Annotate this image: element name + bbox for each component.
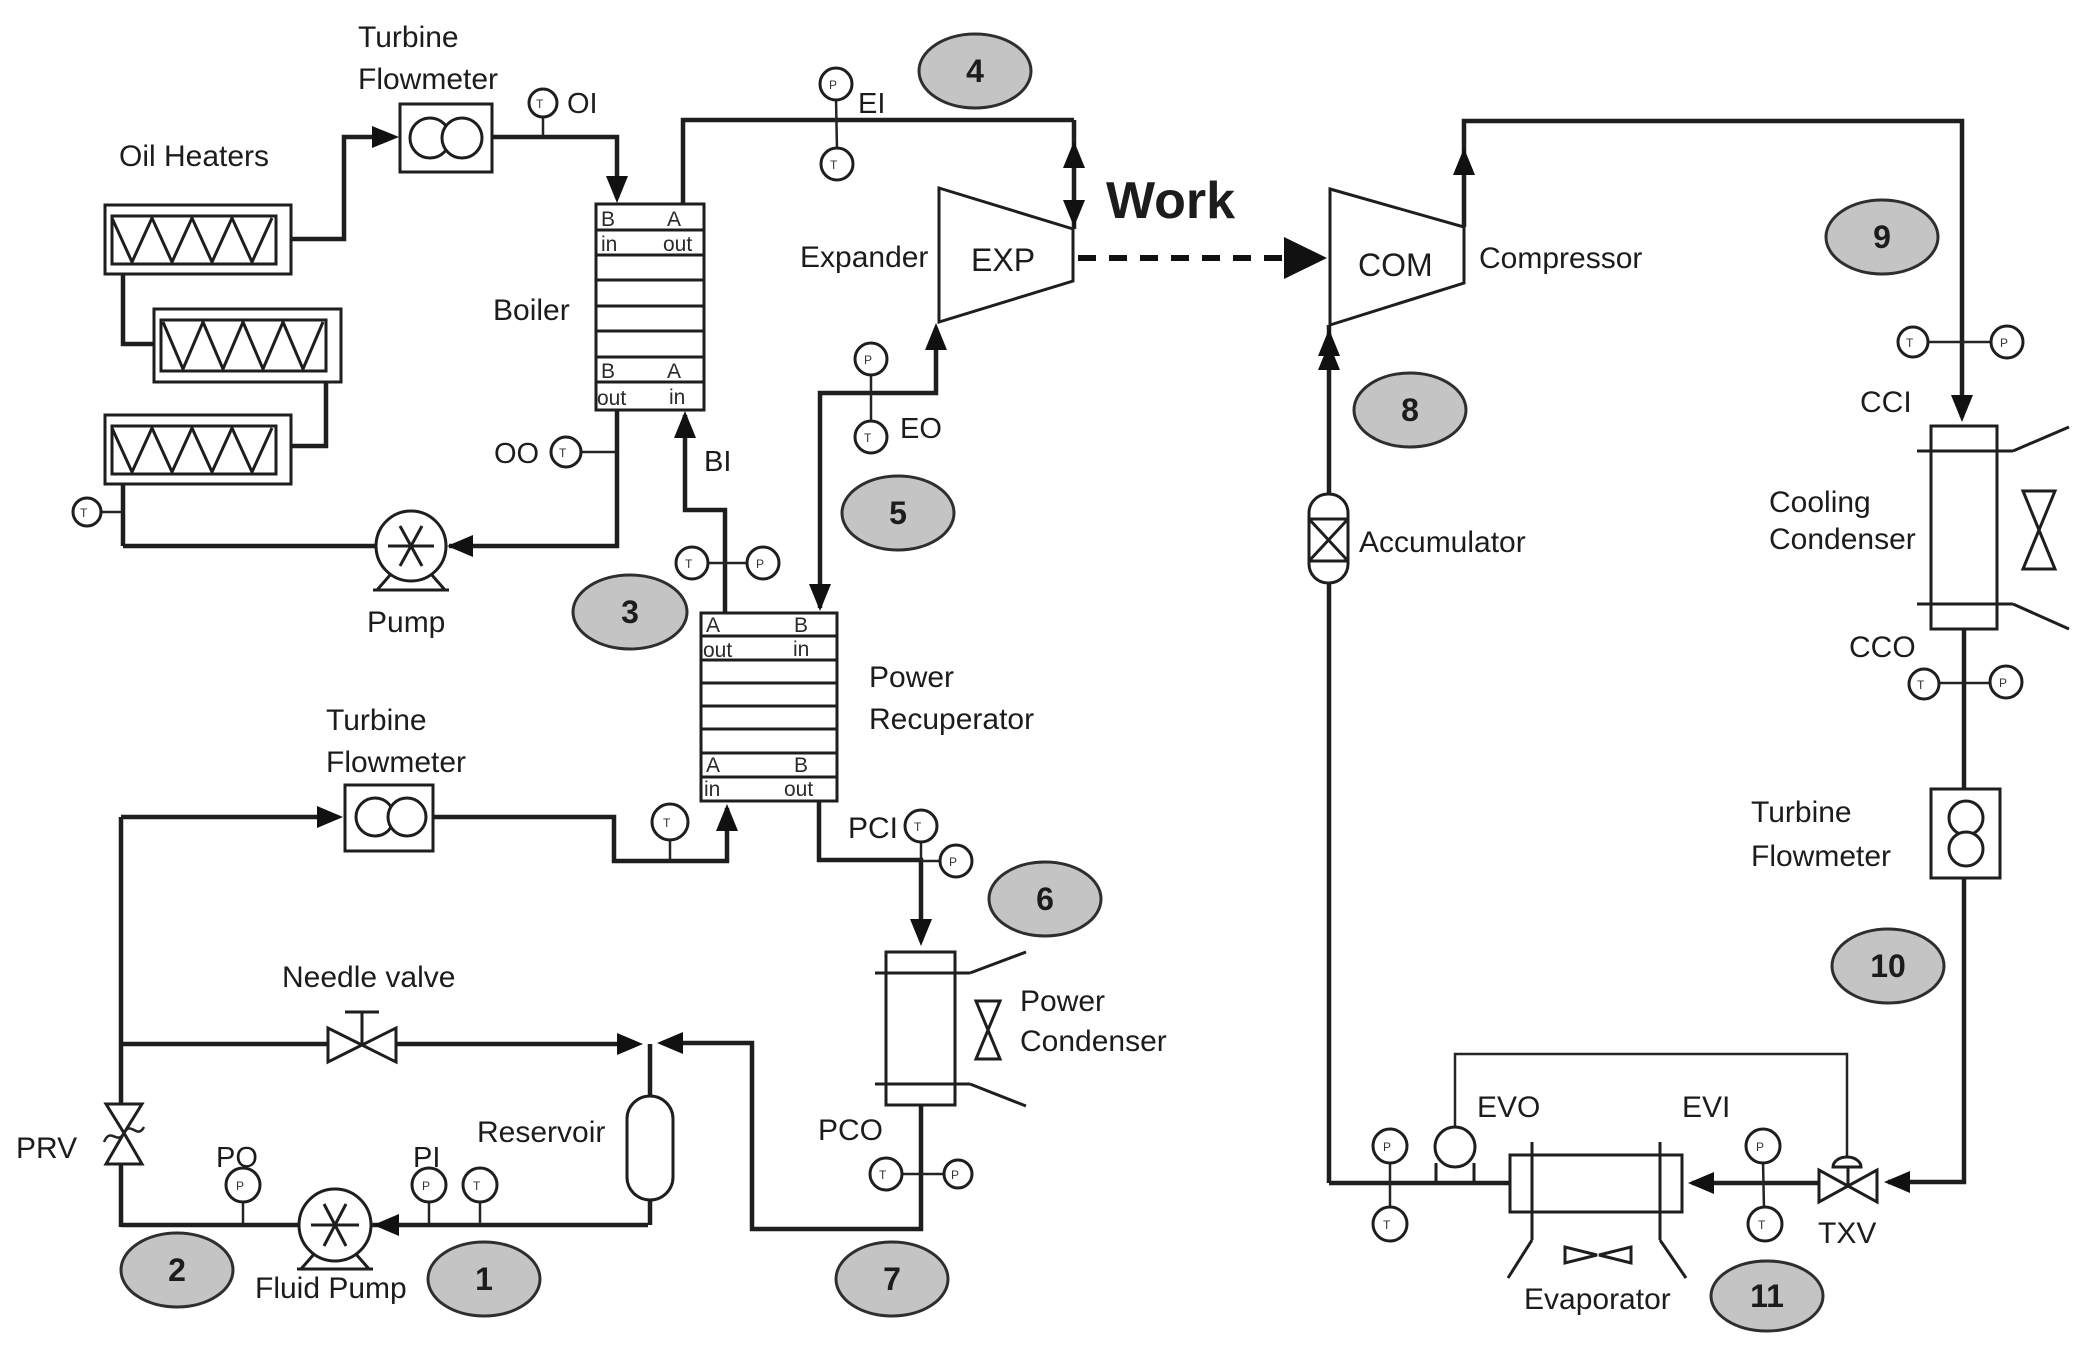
svg-text:6: 6 (1036, 881, 1054, 917)
power recuperator heat exchanger (701, 613, 837, 801)
svg-text:Recuperator: Recuperator (869, 703, 1034, 736)
wire TXV to evaporator inlet (1692, 1181, 1822, 1186)
reservoir (627, 1096, 673, 1200)
stem sensor OI (542, 115, 545, 137)
needle valve (328, 1012, 396, 1062)
svg-text:P: P (2000, 336, 2008, 350)
stem sensors EI (836, 98, 837, 150)
sensor CCO pressure (1990, 666, 2022, 698)
wire compressor discharge to top run (1464, 121, 1962, 417)
svg-text:Oil Heaters: Oil Heaters (119, 140, 269, 173)
sensor PCO temperature (870, 1158, 902, 1190)
svg-text:Pump: Pump (367, 606, 445, 639)
svg-text:P: P (1756, 1140, 1764, 1154)
arrow up into boiler A-in (674, 411, 696, 438)
sensor EO pressure (855, 343, 887, 375)
sensor PCI pressure (940, 845, 972, 877)
svg-text:OI: OI (567, 88, 598, 120)
node ellipse 11 (1711, 1261, 1823, 1331)
sensor evaporator-out temperature (1373, 1207, 1407, 1241)
svg-text:Evaporator: Evaporator (1524, 1283, 1671, 1316)
svg-text:Power: Power (869, 661, 954, 694)
fluid pump (297, 1189, 373, 1269)
wire right riser down to TXV (1888, 878, 1964, 1182)
svg-text:OO: OO (494, 438, 539, 470)
node ellipse 1 (428, 1242, 540, 1316)
wire into flowmeter2 from left riser (121, 815, 338, 820)
svg-text:T: T (830, 158, 838, 172)
svg-text:T: T (1906, 336, 1914, 350)
svg-text:Flowmeter: Flowmeter (1751, 840, 1891, 873)
svg-text:1: 1 (475, 1261, 493, 1297)
EVO sight glass (1435, 1127, 1475, 1183)
arrow down into cooling condenser (CCI) (1951, 395, 1973, 422)
power condenser (875, 952, 1026, 1106)
turbine flowmeter 1 (400, 104, 492, 172)
svg-text:2: 2 (168, 1252, 186, 1288)
svg-text:Turbine: Turbine (326, 704, 427, 737)
turbine flowmeter 2 (345, 785, 433, 851)
svg-text:EI: EI (858, 88, 885, 120)
svg-text:Condenser: Condenser (1769, 523, 1916, 556)
svg-text:COM: COM (1358, 247, 1433, 283)
svg-text:Expander: Expander (800, 241, 928, 274)
wire needle valve branch (121, 1042, 330, 1047)
stems sensors PCO (901, 1173, 921, 1176)
svg-text:out: out (597, 387, 626, 410)
stem sensors CCO (1937, 682, 1992, 685)
svg-text:B: B (601, 208, 615, 231)
svg-text:Accumulator: Accumulator (1359, 526, 1526, 559)
svg-text:in: in (669, 386, 685, 409)
wire heater2 to heater3 (291, 382, 326, 446)
svg-text:4: 4 (966, 53, 984, 89)
sensor CCI temperature (1898, 327, 1928, 357)
svg-text:11: 11 (1750, 1278, 1784, 1314)
svg-text:B: B (601, 360, 615, 383)
oil heater 2 (154, 309, 341, 382)
svg-text:P: P (1383, 1140, 1391, 1154)
wire evaporator outlet up to accumulator (1327, 583, 1332, 1183)
svg-text:in: in (704, 778, 720, 801)
svg-text:PO: PO (216, 1142, 258, 1174)
svg-text:9: 9 (1873, 219, 1891, 255)
svg-text:P: P (236, 1179, 244, 1193)
svg-text:T: T (1917, 678, 1925, 692)
svg-text:in: in (793, 638, 809, 661)
turbine flowmeter 3 (vertical) (1931, 789, 2000, 878)
node ellipse 6 (989, 862, 1101, 936)
stem sensors on BI riser (692, 562, 763, 565)
node ellipse 4 (919, 34, 1031, 108)
arrow into fluid pump (373, 1214, 399, 1236)
svg-text:T: T (80, 506, 88, 520)
sensor EVI temperature (1748, 1207, 1782, 1241)
wire expander outlet EO (820, 328, 936, 608)
svg-text:T: T (685, 557, 693, 571)
svg-text:PRV: PRV (16, 1132, 77, 1165)
node ellipse 8 (1354, 373, 1466, 447)
sensor EI temperature (821, 148, 853, 180)
arrow into flowmeter1 (372, 126, 399, 148)
sensor PCO pressure (944, 1160, 972, 1188)
stem sensors left of evaporator (1389, 1161, 1392, 1209)
node ellipse 5 (842, 476, 954, 550)
node ellipse 7 (836, 1242, 948, 1316)
svg-text:T: T (473, 1179, 481, 1193)
sensor BI temperature (676, 547, 708, 579)
arrow up on expander inlet drop (1063, 141, 1085, 168)
wire EI line down to expander (1072, 120, 1077, 229)
svg-text:Boiler: Boiler (493, 294, 570, 327)
arrow down into expander (1063, 200, 1085, 227)
svg-text:B: B (794, 754, 808, 777)
svg-text:PCO: PCO (818, 1114, 883, 1147)
svg-text:EVO: EVO (1477, 1091, 1540, 1124)
arrow up on compressor discharge (1453, 148, 1475, 175)
svg-text:P: P (422, 1179, 430, 1193)
svg-text:BI: BI (704, 446, 731, 478)
svg-text:out: out (663, 233, 692, 256)
stem sensor T on recuperator inlet run (669, 838, 672, 861)
svg-text:Cooling: Cooling (1769, 486, 1871, 519)
arrow into boiler B-in (606, 176, 628, 203)
svg-text:P: P (756, 557, 764, 571)
svg-text:A: A (667, 208, 681, 231)
wire recuperator B-out to power condenser (PCI) (819, 801, 921, 941)
oil heater 1 (105, 205, 291, 274)
svg-text:Reservoir: Reservoir (477, 1116, 605, 1149)
sensor OI (529, 89, 557, 117)
stem sensor PCI (920, 840, 923, 860)
arrow right into reservoir junction (617, 1033, 643, 1055)
svg-text:T: T (536, 97, 544, 111)
accumulator (1309, 494, 1348, 583)
arrowhead work into compressor (1284, 237, 1327, 279)
svg-text:T: T (864, 431, 872, 445)
arrow into flowmeter2 (317, 806, 343, 828)
svg-text:T: T (1758, 1218, 1766, 1232)
wire heater1 to flowmeter1 (291, 137, 394, 239)
svg-text:P: P (951, 1168, 959, 1182)
svg-text:8: 8 (1401, 392, 1419, 428)
svg-text:TXV: TXV (1818, 1217, 1876, 1250)
svg-text:7: 7 (883, 1261, 901, 1297)
sensor CCI pressure (1991, 326, 2023, 358)
svg-text:EO: EO (900, 413, 942, 445)
svg-text:out: out (784, 778, 813, 801)
stem sensors EVI (1763, 1161, 1764, 1209)
svg-text:T: T (879, 1168, 887, 1182)
cooling condenser (1917, 426, 2069, 629)
wire accumulator to compressor inlet (1327, 325, 1332, 494)
arrow left into reservoir junction (657, 1032, 683, 1054)
svg-text:Compressor: Compressor (1479, 242, 1642, 275)
svg-text:Flowmeter: Flowmeter (326, 746, 466, 779)
wire junction down to reservoir (648, 1044, 653, 1098)
sensor flowmeter2 temperature (652, 804, 688, 840)
arrow into oil pump (447, 535, 473, 557)
sensor OO (551, 437, 581, 467)
wire boiler A-out up to EI line (683, 120, 1074, 204)
stem sensors CCI (1926, 341, 1993, 344)
wire left riser (119, 817, 124, 1106)
svg-text:CCO: CCO (1849, 631, 1916, 664)
svg-text:Fluid Pump: Fluid Pump (255, 1272, 407, 1305)
sensor EI pressure (820, 68, 852, 100)
sensor evaporator-out pressure (1373, 1129, 1407, 1163)
svg-text:T: T (559, 446, 567, 460)
svg-text:Turbine: Turbine (1751, 796, 1852, 829)
svg-text:P: P (1999, 676, 2007, 690)
boiler heat exchanger (596, 204, 704, 410)
sensor EVI pressure (1746, 1129, 1780, 1163)
svg-text:CCI: CCI (1860, 386, 1912, 419)
stems sensors PI (428, 1200, 431, 1225)
wire cooling condenser to flowmeter3 (1962, 629, 1967, 789)
evaporator (1508, 1142, 1686, 1278)
svg-text:Condenser: Condenser (1020, 1025, 1167, 1058)
stem sensor P right of PCI corner (921, 860, 942, 863)
wire heat pump bottom run (1329, 1181, 1512, 1186)
svg-text:PCI: PCI (848, 812, 898, 845)
svg-text:EXP: EXP (971, 242, 1035, 278)
arrow down into power condenser (910, 919, 932, 946)
svg-text:P: P (949, 855, 957, 869)
sensor CCO temperature (1909, 669, 1939, 699)
sensor oil heater return (73, 498, 101, 526)
node ellipse 10 (1832, 929, 1944, 1003)
wire oil pump suction from boiler B-out (449, 410, 617, 546)
svg-text:Power: Power (1020, 985, 1105, 1018)
dashed work shaft line (1078, 255, 1286, 261)
compressor COM (1330, 189, 1464, 325)
wire flowmeter2 to recuperator A-in (433, 808, 727, 861)
oil pump (373, 511, 449, 590)
arrow into evaporator (1688, 1172, 1714, 1194)
wire oil pump discharge to heaters (123, 544, 377, 549)
svg-text:Turbine: Turbine (358, 21, 459, 54)
node ellipse 9 (1826, 200, 1938, 274)
wire BI recuperator A-out to boiler A-in (685, 415, 725, 613)
svg-text:Flowmeter: Flowmeter (358, 63, 498, 96)
wire power condenser out (PCO) down and back to junction (662, 1043, 921, 1229)
wire heater1 to heater2 (123, 274, 154, 344)
svg-text:B: B (794, 614, 808, 637)
node ellipse 3 (573, 575, 687, 649)
arrow into TXV (1884, 1171, 1910, 1193)
TXV expansion valve (1819, 1157, 1877, 1202)
PRV relief valve (104, 1104, 144, 1164)
svg-text:EVI: EVI (1682, 1091, 1730, 1124)
TXV sensing capillary line (1455, 1054, 1847, 1158)
sensor PI pressure (412, 1168, 446, 1202)
svg-text:A: A (667, 360, 681, 383)
arrow up into recuperator A-in (716, 804, 738, 831)
sensor EO temperature (855, 421, 887, 453)
svg-text:10: 10 (1870, 948, 1906, 984)
svg-text:T: T (663, 816, 671, 830)
stem sensor oil loop left (99, 511, 123, 514)
svg-text:Needle valve: Needle valve (282, 961, 455, 994)
svg-text:P: P (864, 353, 872, 367)
node ellipse 2 (121, 1233, 233, 1307)
svg-text:T: T (914, 820, 922, 834)
sensor PI temperature (463, 1168, 497, 1202)
wire flowmeter1 to boiler top (OI line) (492, 137, 617, 198)
svg-text:T: T (1383, 1218, 1391, 1232)
arrow down into recuperator B-in (809, 584, 831, 611)
expander EXP (939, 188, 1073, 322)
wire pump suction bottom left (121, 1223, 648, 1228)
svg-text:A: A (706, 754, 720, 777)
oil heater 3 (105, 415, 291, 484)
svg-text:3: 3 (621, 594, 639, 630)
svg-text:in: in (601, 233, 617, 256)
svg-text:A: A (706, 614, 720, 637)
svg-text:Work: Work (1106, 172, 1235, 230)
svg-text:P: P (829, 78, 837, 92)
sensor PCI temperature (905, 810, 937, 842)
stem sensor OO (579, 451, 617, 454)
stem sensor PO (242, 1200, 245, 1225)
svg-text:out: out (703, 639, 732, 662)
svg-text:PI: PI (413, 1142, 440, 1174)
wire reservoir bottom stub (648, 1198, 653, 1225)
sensor PO (226, 1168, 260, 1202)
svg-text:5: 5 (889, 495, 907, 531)
double arrow up into compressor (1318, 329, 1340, 356)
stem sensors EO (870, 373, 873, 423)
sensor BI pressure (747, 547, 779, 579)
arrow up into expander bottom corner (925, 323, 947, 350)
wire heater3 down (121, 484, 126, 546)
